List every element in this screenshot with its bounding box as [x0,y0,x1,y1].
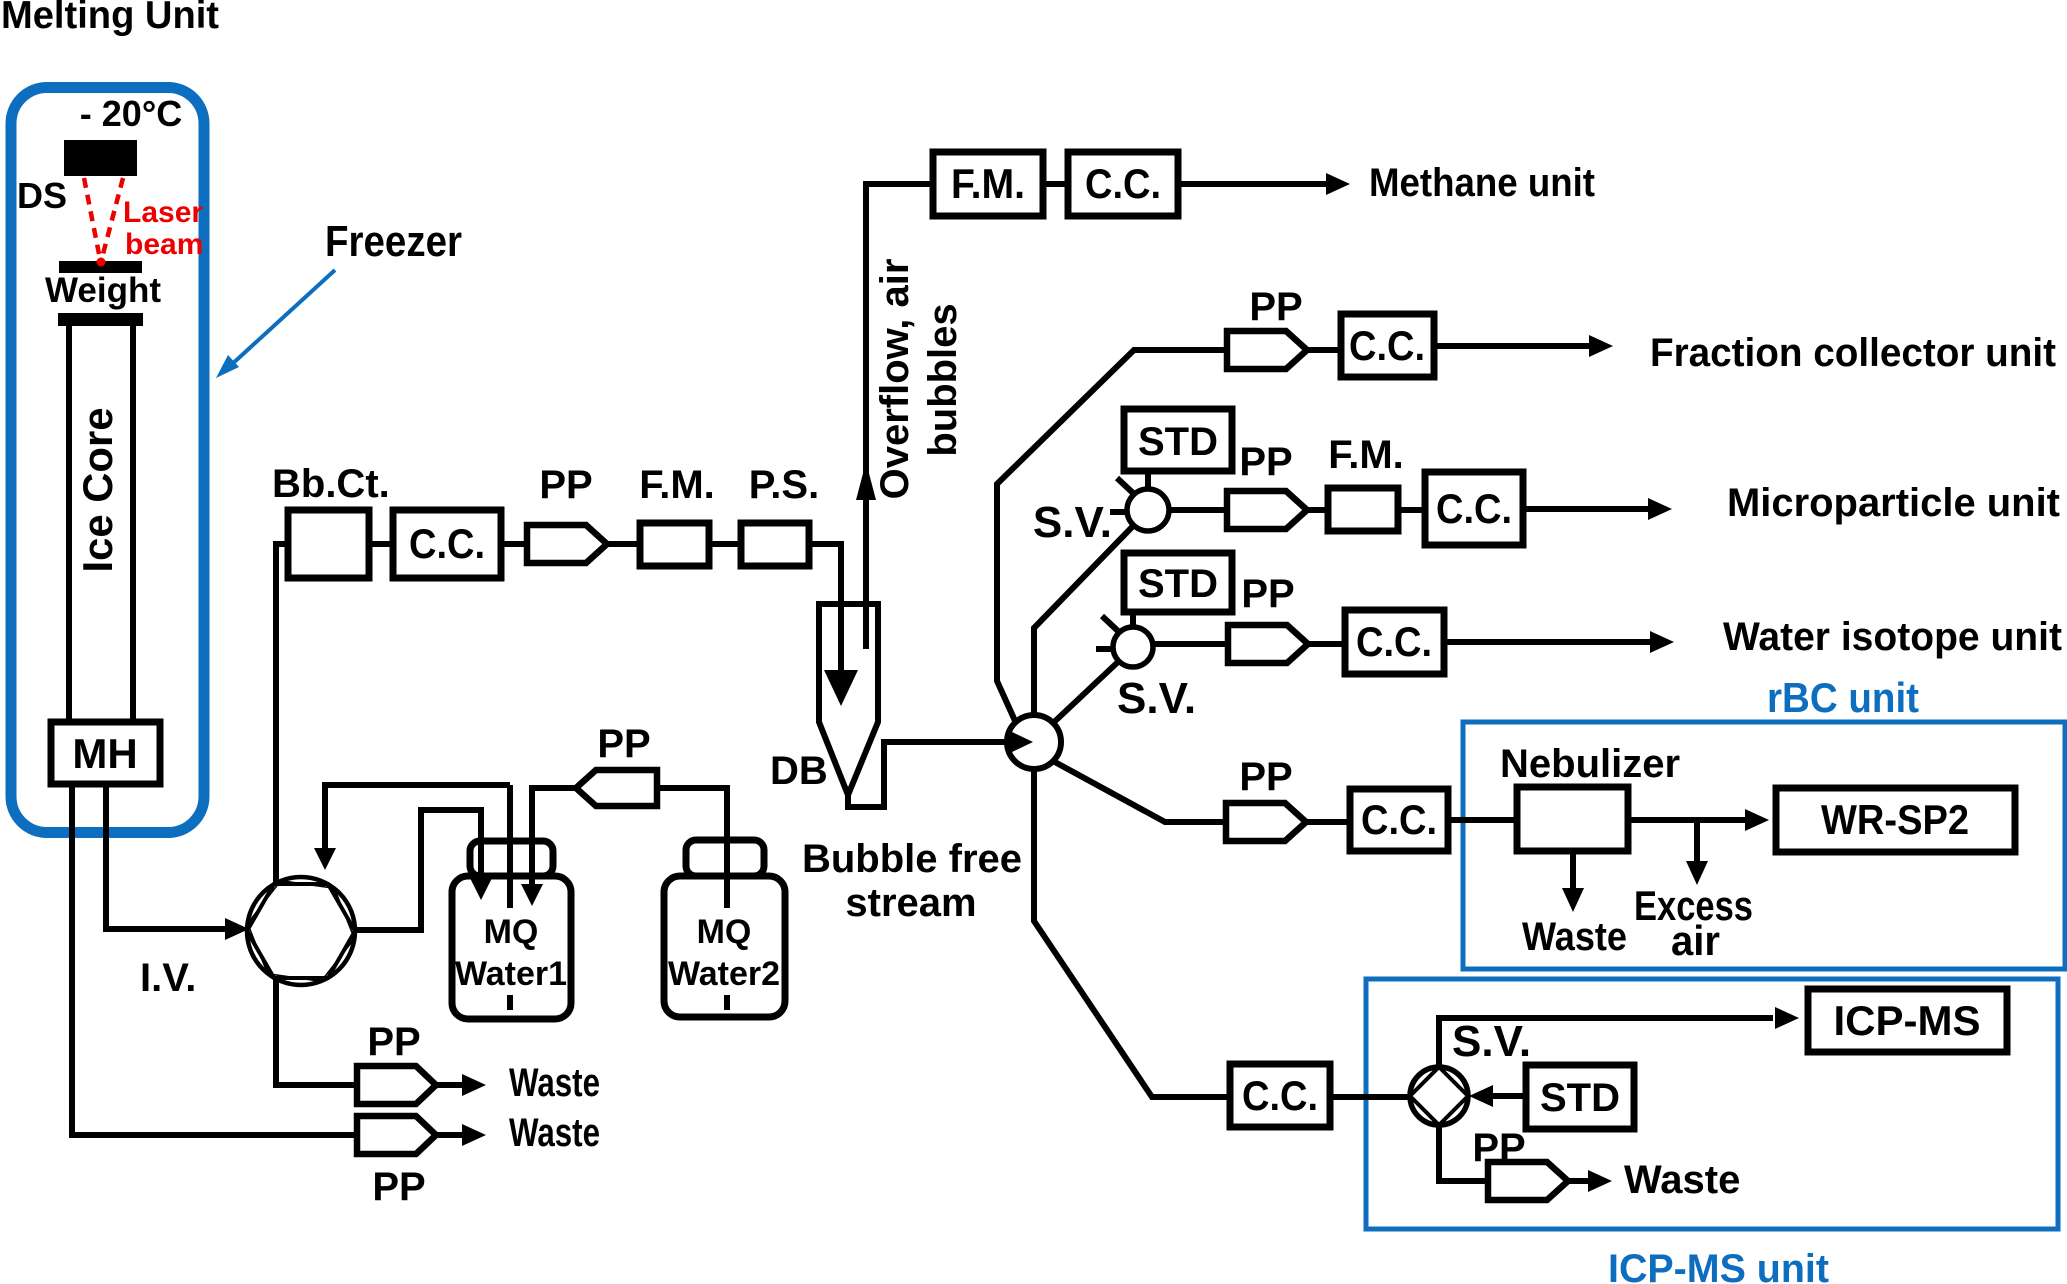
injection valve I.V. [241,877,361,985]
wire I.V. right port loop to MQ Water1 [354,810,481,930]
svg-text:PP: PP [539,463,592,507]
wire pump to F.M. (microparticle) [1307,507,1328,513]
conductivity cell C.C. (methane) [1068,152,1178,216]
svg-text:PP: PP [1472,1126,1525,1170]
wire central node to S.V.2 [1052,661,1119,724]
overflow line up to methane branch [866,184,933,649]
svg-text:Ice Core: Ice Core [74,408,121,573]
svg-text:MQ: MQ [697,913,752,951]
svg-text:Microparticle unit: Microparticle unit [1727,481,2060,525]
wire MQ Water1 dip tube to I.V. top-right port (down arrow) [325,785,510,848]
svg-text:Waste: Waste [1522,915,1627,959]
displacement sensor DS [64,140,137,176]
svg-text:PP: PP [367,1020,420,1064]
wire MH melt line to I.V. [106,784,227,929]
svg-text:MQ: MQ [484,913,539,951]
refill line into MQ Water1 [532,788,576,884]
standard STD box 2 [1124,553,1232,612]
svg-text:Nebulizer: Nebulizer [1500,742,1680,786]
svg-text:Water isotope unit: Water isotope unit [1723,615,2062,659]
standard STD box 1 [1124,409,1232,471]
conductivity cell C.C. (microparticle) [1425,472,1523,545]
wire C.C. to nebulizer [1448,817,1517,823]
ICP waste pump PP [1488,1162,1568,1200]
svg-text:Water1: Water1 [455,955,567,993]
svg-text:- 20°C: - 20°C [80,93,182,134]
wire S.V.2 to pump [1153,641,1228,647]
debubbler DB funnel [819,604,878,795]
svg-text:Laser: Laser [123,196,203,229]
svg-text:F.M.: F.M. [1328,433,1404,477]
weight bottom bar [58,313,143,326]
WR-SP2 box [1776,788,2015,852]
svg-text:C.C.: C.C. [1356,618,1432,665]
svg-text:C.C.: C.C. [1349,322,1425,369]
conductivity cell C.C. (ICP-MS line) [1230,1064,1330,1127]
S.V.1 closed-port stubs [1110,478,1133,512]
wire S.V.1 to pump [1169,507,1227,513]
svg-text:STD: STD [1138,562,1218,606]
svg-text:PP: PP [597,722,650,766]
nebulizer waste branch [1570,851,1576,888]
laser spot [97,258,106,267]
svg-text:WR-SP2: WR-SP2 [1821,796,1969,843]
svg-text:C.C.: C.C. [1242,1072,1318,1119]
wire C.C. to S.V.3 [1330,1094,1410,1100]
svg-text:ICP-MS unit: ICP-MS unit [1608,1247,1829,1284]
MQ Water1 dip tube [507,785,513,908]
selector valve S.V.2 [1113,627,1153,667]
wire to methane unit [1178,181,1326,187]
weight top bar [59,261,142,273]
svg-text:DS: DS [17,175,67,216]
svg-text:Fraction collector unit: Fraction collector unit [1650,331,2056,375]
svg-text:PP: PP [1239,755,1292,799]
svg-text:Overflow, air: Overflow, air [873,259,917,500]
wire to microparticle unit [1523,506,1648,512]
laser beam (red dashed) [84,178,123,254]
svg-text:PP: PP [372,1165,425,1209]
svg-text:PP: PP [1241,572,1294,616]
wire C.C. to S.V.3 (over border) [1330,1094,1410,1100]
wire STD to S.V.1 [1145,471,1151,490]
rBC pump PP [1226,803,1306,841]
svg-text:F.M.: F.M. [951,160,1025,207]
wire pump to F.M. [607,541,640,547]
wire pump to waste (ICP) [1568,1178,1588,1184]
conductivity cell C.C. (fraction) [1341,314,1434,377]
svg-text:stream: stream [845,881,976,925]
selector valve S.V.1 [1127,489,1169,531]
svg-text:DB: DB [770,749,828,793]
melter head MH [51,722,160,784]
central distribution node [1007,715,1061,769]
MQ Water2 bottle [664,876,785,1017]
pressure sensor P.S. [741,523,809,566]
refill pump PP (left pointing) [657,788,727,908]
debubbler outlet to central node [848,742,1009,807]
selector valve S.V.3 (4-port) [1439,1018,1773,1067]
wire to fraction collector unit [1434,343,1589,349]
svg-text:C.C.: C.C. [1361,796,1437,843]
wire F.M. to C.C. (microparticle) [1398,507,1425,513]
bubble counter Bb.Ct. [288,510,369,578]
svg-text:ICP-MS: ICP-MS [1834,997,1981,1044]
svg-text:S.V.: S.V. [1033,498,1112,547]
wire P.S. down into debubbler [809,544,841,670]
fraction collector pump PP [1227,331,1307,369]
svg-text:I.V.: I.V. [140,956,196,1000]
wire Bb.Ct. down to I.V. top-left port [276,544,288,884]
svg-text:S.V.: S.V. [1452,1017,1531,1066]
wire pump to C.C. (water isotope) [1308,641,1345,647]
conductivity cell C.C. (melt line) [393,510,501,578]
svg-text:Melting Unit: Melting Unit [1,0,219,37]
wire central node to rBC branch [1053,761,1226,822]
ICP-MS box [1808,989,2007,1052]
wire F.M. to C.C. (methane) [1043,181,1068,187]
svg-text:P.S.: P.S. [749,463,819,507]
wire F.M. to P.S. [709,541,741,547]
S.V.2 closed-port stubs [1096,616,1118,649]
svg-text:Bb.Ct.: Bb.Ct. [272,462,390,506]
svg-text:C.C.: C.C. [1085,160,1161,207]
wire pump to C.C. (fraction) [1307,347,1341,353]
wire MH to waste pump (lower) [72,784,357,1135]
svg-text:PP: PP [1239,440,1292,484]
svg-text:Weight: Weight [45,271,161,310]
wire nebulizer to WR-SP2 [1628,817,1745,823]
svg-text:PP: PP [1249,285,1302,329]
ice core column [69,326,133,722]
wire I.V. bottom port to waste pump (upper) [276,977,357,1085]
svg-text:beam: beam [125,228,203,261]
flow meter F.M. (methane) [933,152,1043,216]
svg-text:rBC unit: rBC unit [1767,674,1919,721]
rBC unit blue box [1463,722,2065,969]
freezer enclosure (blue rounded box) [11,88,204,833]
pump PP (melt line) [527,525,607,563]
svg-text:Freezer: Freezer [325,217,462,266]
flow meter F.M. (melt line) [640,523,709,566]
svg-text:STD: STD [1138,420,1218,464]
freezer pointer arrow (blue) [230,270,335,366]
nebulizer box [1517,787,1628,851]
svg-text:C.C.: C.C. [1436,485,1512,532]
wire central node to fraction collector branch [997,350,1227,723]
wire central node to S.V.1 [1034,524,1135,716]
wire Bb.Ct. to C.C. [369,541,393,547]
standard STD box 3 [1526,1065,1634,1129]
svg-text:Water2: Water2 [668,955,780,993]
svg-text:air: air [1671,917,1720,964]
conductivity cell C.C. (rBC) [1350,789,1448,851]
svg-text:MH: MH [72,730,137,777]
wire to water isotope unit [1444,639,1650,645]
wire C.C. to pump [501,541,527,547]
svg-text:Waste: Waste [1624,1158,1740,1202]
waste pump upper PP [357,1066,436,1104]
wire pump to C.C. (rBC) [1306,819,1350,825]
wire central node to ICP-MS branch [1034,769,1230,1097]
svg-text:bubbles: bubbles [921,303,965,456]
svg-text:Waste: Waste [509,1111,600,1155]
waste pump lower PP [357,1116,436,1154]
wire STD to S.V.3 [1491,1093,1526,1099]
svg-text:S.V.: S.V. [1117,674,1196,723]
svg-text:F.M.: F.M. [639,463,715,507]
svg-text:Methane unit: Methane unit [1369,161,1595,205]
svg-text:STD: STD [1540,1076,1620,1120]
flow meter F.M. (microparticle) [1328,488,1398,531]
MQ Water1 bottle [452,876,571,1019]
svg-text:Waste: Waste [509,1061,600,1105]
ICP-MS unit blue box [1366,979,2058,1229]
conductivity cell C.C. (water isotope) [1345,610,1444,674]
wire STD to S.V.2 [1130,612,1136,627]
excess air branch [1694,820,1700,861]
svg-text:C.C.: C.C. [409,520,485,567]
svg-text:Bubble free: Bubble free [802,837,1022,881]
